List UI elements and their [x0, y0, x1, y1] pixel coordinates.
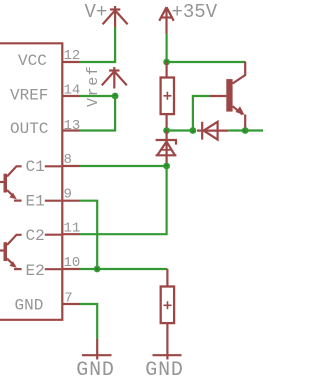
zener diode Z1 [156, 131, 177, 167]
pin 13 OUTC [10, 118, 80, 138]
pin 10 E2 [26, 255, 81, 280]
transistor Q1 [210, 62, 245, 131]
wire R1 bottom to diode [167, 129, 193, 131]
wire diode to Q1 collector [228, 129, 245, 131]
pin 14 VREF [10, 82, 80, 104]
junction node pin14/Vref [112, 93, 119, 100]
svg-text:V+: V+ [85, 1, 108, 23]
svg-text:14: 14 [64, 82, 81, 98]
svg-text:8: 8 [64, 152, 72, 168]
svg-text:7: 7 [64, 291, 72, 307]
svg-text:GND: GND [145, 359, 183, 381]
wire pin 8 to zener anode [80, 165, 167, 167]
svg-text:C1: C1 [26, 158, 45, 176]
supply symbol Vref [85, 65, 127, 107]
supply symbol V+ [85, 1, 128, 28]
op-amp U1 IC body [0, 43, 62, 320]
ground GND left [76, 339, 114, 381]
svg-text:12: 12 [64, 48, 81, 64]
diode D1 [197, 122, 228, 140]
wire +35V rail to Q1 [167, 61, 246, 63]
svg-text:VCC: VCC [18, 52, 47, 70]
junction node diode/base [190, 127, 197, 134]
junction node R1 bottom [163, 127, 170, 134]
wire +35V down [166, 34, 168, 63]
svg-text:10: 10 [64, 255, 81, 271]
wire pin 10 to R2 [80, 268, 168, 270]
pin 12 VCC [18, 48, 80, 70]
svg-text:9: 9 [64, 187, 72, 203]
svg-text:Vref: Vref [85, 65, 102, 107]
wire zener anode down to pin 11 [80, 166, 167, 234]
resistor R2 [161, 269, 174, 339]
supply symbol +35V [159, 1, 217, 34]
wire Vref to pin 14 [80, 95, 116, 97]
transistor T2 inside IC [0, 235, 22, 269]
svg-text:E2: E2 [26, 262, 45, 280]
svg-text:GND: GND [15, 297, 44, 315]
junction node zener anode [163, 163, 170, 170]
ground GND right [145, 339, 183, 381]
wire pin 9 down to pin 10 row [80, 201, 98, 269]
svg-text:11: 11 [64, 221, 81, 237]
wire base net [193, 96, 210, 131]
svg-text:OUTC: OUTC [10, 120, 48, 138]
pin 8 C1 [26, 152, 80, 176]
pin 11 C2 [26, 221, 81, 246]
svg-text:E1: E1 [26, 193, 45, 211]
wire pin 14 to pin 13 [80, 96, 116, 131]
resistor R1 [161, 62, 174, 131]
svg-text:13: 13 [64, 118, 81, 134]
svg-text:VREF: VREF [10, 86, 48, 104]
svg-text:+35V: +35V [172, 1, 218, 23]
transistor T1 inside IC [0, 166, 22, 200]
wire V+ to pin 12 [80, 27, 116, 62]
pin 9 E1 [26, 187, 80, 211]
wire pin 7 to ground [80, 304, 98, 339]
wire output to right edge [245, 129, 264, 131]
svg-text:GND: GND [76, 359, 114, 381]
pin 7 GND [15, 291, 80, 315]
junction node Q1 emitter/output [242, 127, 249, 134]
svg-text:C2: C2 [26, 227, 45, 245]
junction node +35V rail [163, 59, 170, 66]
junction node E1/E2 [94, 266, 101, 273]
